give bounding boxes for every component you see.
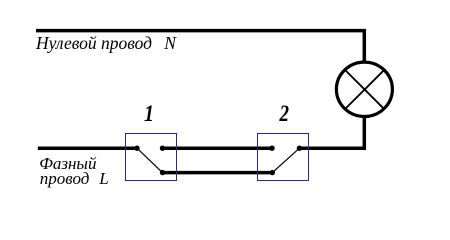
svg-text:2: 2 — [279, 101, 289, 126]
svg-text:1: 1 — [144, 101, 154, 126]
svg-text:провод: провод — [40, 169, 90, 188]
svg-text:Нулевой провод: Нулевой провод — [35, 33, 152, 53]
svg-text:L: L — [98, 169, 108, 188]
svg-text:N: N — [163, 33, 177, 53]
